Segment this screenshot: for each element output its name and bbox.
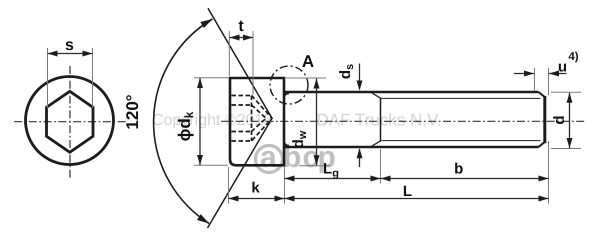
end chamfer bottom — [539, 142, 545, 147]
dimension b line — [381, 178, 549, 180]
socket inner cone hidden chevron — [252, 105, 267, 132]
dimension d extension line top — [551, 91, 581, 93]
watermark abcp logo text — [260, 141, 336, 174]
front view vertical centerline — [69, 66, 71, 179]
thread runout bottom taper — [372, 141, 381, 146]
120 degree arc with arrows — [154, 19, 213, 223]
svg-text:t: t — [238, 18, 244, 35]
head left extension line bottom — [228, 167, 230, 204]
end face — [543, 96, 546, 143]
head to shank bottom fillet — [284, 142, 289, 146]
dimension u line with outside arrows — [514, 73, 534, 75]
upper cone flank construction line — [208, 8, 272, 118]
svg-text:d: d — [551, 115, 568, 124]
svg-text:b: b — [454, 161, 463, 178]
dimension phi-dk extension line top — [194, 77, 229, 79]
shank bottom edge — [285, 146, 539, 149]
svg-text:DAF Trucks N.V.: DAF Trucks N.V. — [317, 111, 442, 130]
dimension t line — [230, 37, 254, 39]
hex socket (front view) — [47, 91, 94, 152]
thread runout top taper — [372, 93, 381, 98]
thread root bottom line — [381, 140, 541, 142]
head to shank top fillet — [284, 93, 289, 97]
screw axis centerline — [221, 120, 585, 122]
svg-text:k: k — [251, 180, 260, 197]
thread root top line — [381, 97, 541, 99]
svg-text:4): 4) — [568, 51, 578, 63]
hex socket hidden line top inner — [232, 104, 252, 106]
watermark abcp logo ring — [256, 146, 283, 173]
dimension phi-dk line — [199, 78, 201, 165]
svg-text:u: u — [558, 59, 567, 76]
dimension d extension line bottom — [551, 148, 581, 150]
dimension t extension lines — [228, 31, 230, 76]
head outline (side view) — [230, 78, 284, 165]
lower cone flank construction line — [208, 118, 273, 228]
dimension dw extension line top — [286, 77, 326, 79]
hex socket hidden line bottom inner — [232, 131, 252, 133]
svg-text:Copyright ©2015: Copyright ©2015 — [152, 112, 272, 129]
svg-text:A: A — [302, 52, 314, 71]
hex socket bottom hidden line — [251, 96, 253, 142]
dimension phi-dk extension line bottom — [194, 164, 228, 166]
end chamfer top — [539, 92, 545, 97]
shank top edge — [285, 91, 539, 94]
head outer circle (front view) — [26, 77, 114, 165]
dimension s extension lines — [47, 48, 49, 108]
head face extension line bottom — [284, 167, 286, 204]
dimension Lg line — [285, 178, 381, 180]
dimension L line — [285, 198, 549, 200]
dimension dw extension line bottom — [299, 165, 330, 167]
detail A circle — [270, 66, 308, 104]
screw end extension line bottom — [548, 141, 550, 204]
hex socket hidden line top outer — [232, 95, 252, 97]
svg-text:120°: 120° — [123, 94, 142, 129]
dimension s line — [48, 53, 93, 55]
svg-text:s: s — [65, 37, 74, 54]
svg-text:a: a — [260, 141, 277, 174]
svg-text:L: L — [403, 183, 412, 200]
dimension d line — [569, 93, 571, 148]
dimension u extension lines — [534, 68, 536, 91]
dimension k line — [229, 198, 285, 200]
dimension ds lower arrow — [359, 149, 361, 167]
front view horizontal centerline — [14, 121, 126, 123]
socket drill cone hidden chevron — [252, 96, 273, 142]
hex socket hidden line bottom outer — [232, 140, 252, 142]
dimension ds upper arrow — [359, 64, 361, 90]
dimension dw line — [316, 79, 318, 166]
watermark copyright text — [152, 111, 442, 130]
full thread boundary line — [380, 98, 382, 140]
Lg right extension line (thread start) — [380, 149, 382, 184]
